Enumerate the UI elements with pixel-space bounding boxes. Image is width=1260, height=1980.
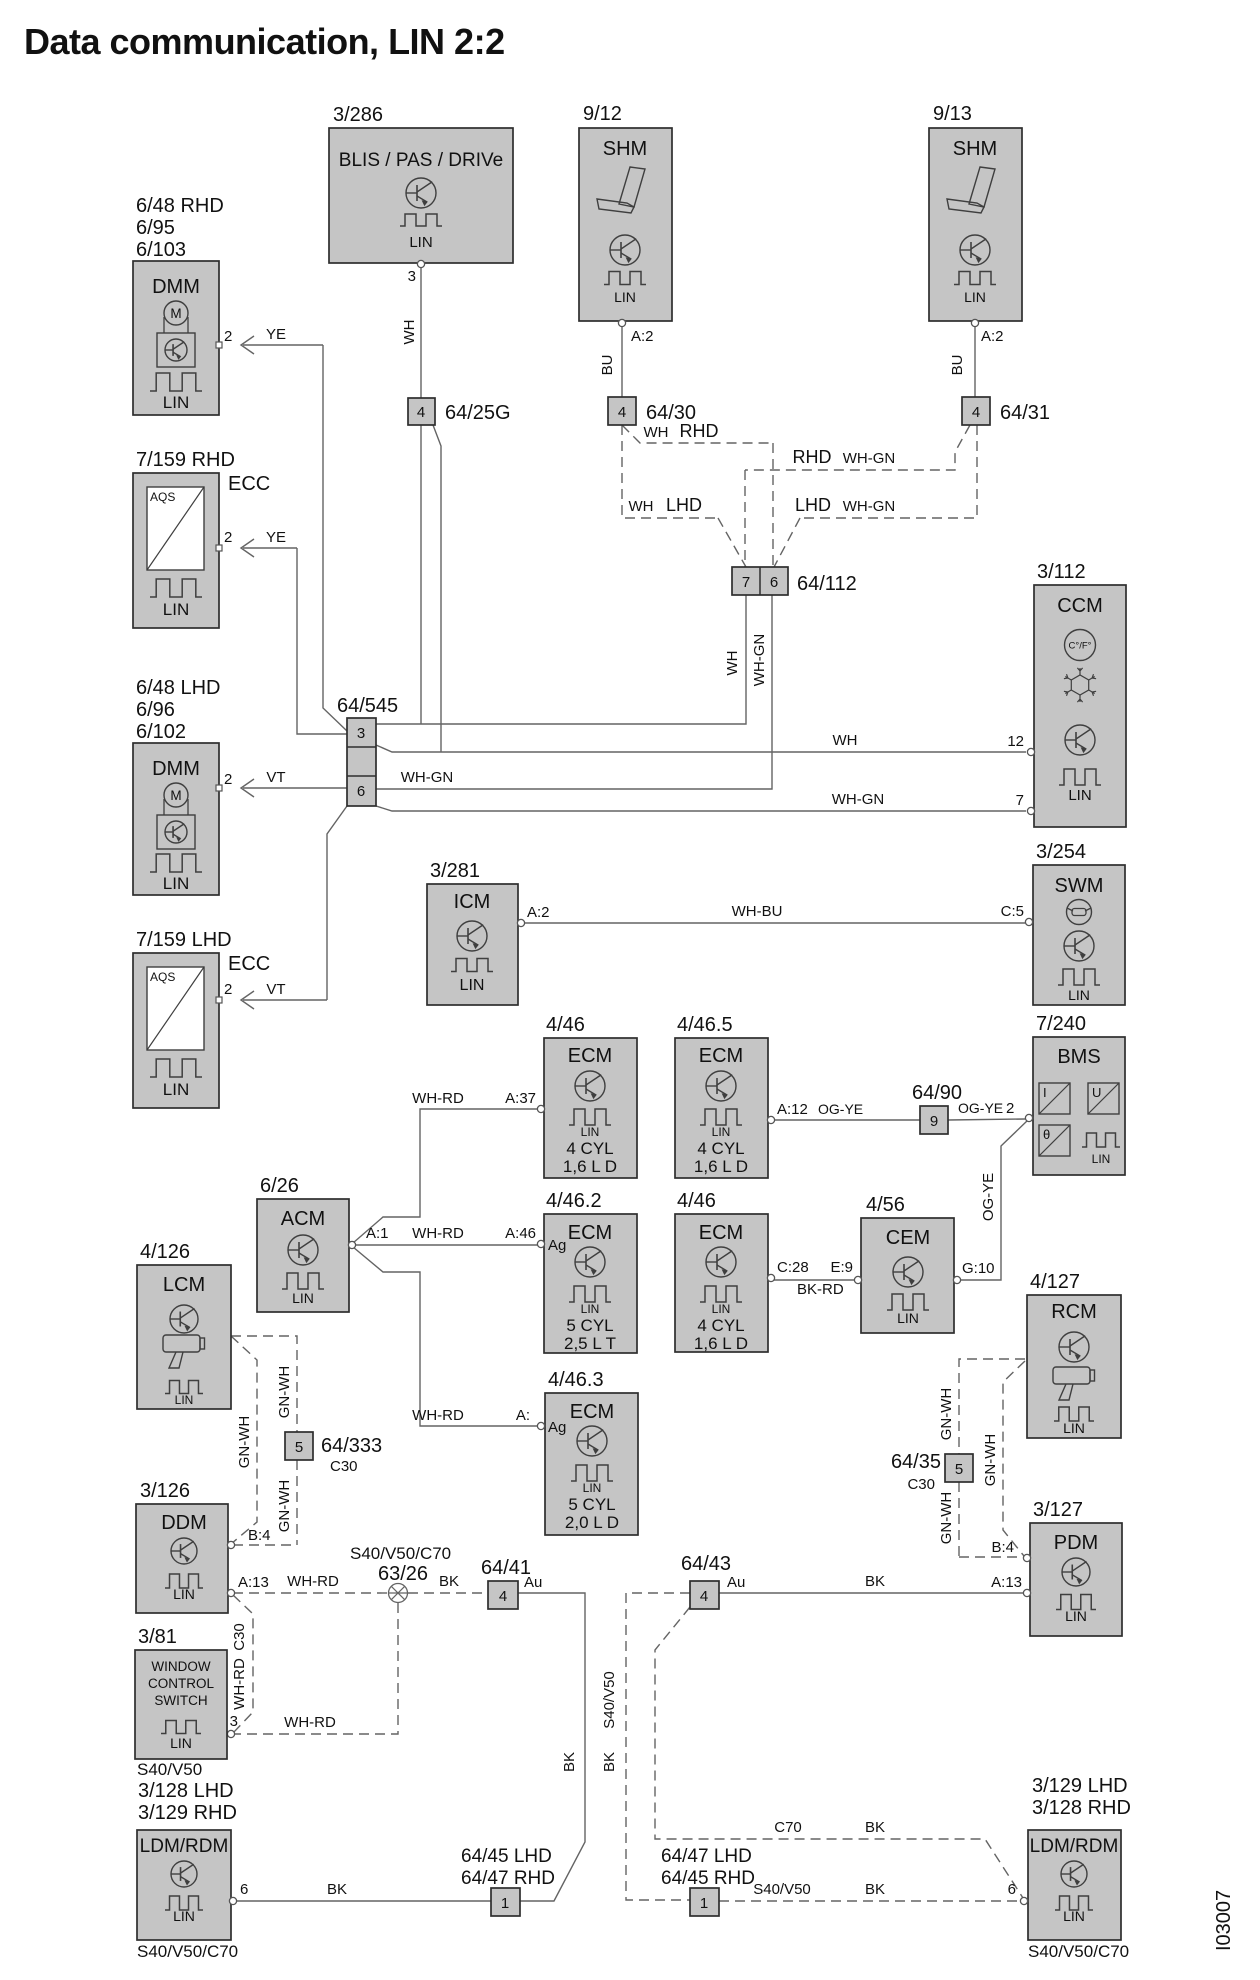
svg-text:LIN: LIN [712, 1302, 731, 1316]
svg-text:3/126: 3/126 [140, 1480, 190, 1502]
svg-text:9/13: 9/13 [933, 103, 972, 125]
svg-text:DMM: DMM [152, 758, 200, 780]
svg-text:BK: BK [561, 1752, 578, 1772]
svg-text:63/26: 63/26 [378, 1563, 428, 1585]
svg-text:7: 7 [1016, 792, 1024, 809]
svg-text:4: 4 [700, 1588, 708, 1605]
svg-text:4 CYL: 4 CYL [566, 1139, 613, 1158]
svg-text:3/129 LHD: 3/129 LHD [1032, 1775, 1128, 1797]
svg-text:LCM: LCM [163, 1274, 205, 1296]
svg-text:θ: θ [1043, 1127, 1050, 1142]
svg-text:LHD: LHD [795, 495, 831, 515]
svg-text:WINDOW: WINDOW [151, 1659, 210, 1674]
svg-text:BMS: BMS [1057, 1046, 1100, 1068]
svg-text:2,0 L D: 2,0 L D [565, 1513, 619, 1532]
svg-text:4: 4 [618, 404, 626, 421]
svg-text:A:13: A:13 [991, 1574, 1022, 1591]
svg-text:RHD: RHD [680, 421, 719, 441]
svg-text:6: 6 [770, 574, 778, 591]
svg-text:4 CYL: 4 CYL [697, 1139, 744, 1158]
svg-text:GN-WH: GN-WH [276, 1480, 293, 1533]
svg-text:7/240: 7/240 [1036, 1013, 1086, 1035]
svg-text:WH: WH [833, 732, 858, 749]
svg-text:64/31: 64/31 [1000, 402, 1050, 424]
svg-text:64/112: 64/112 [797, 573, 857, 595]
svg-text:LIN: LIN [163, 600, 189, 619]
svg-text:2: 2 [224, 981, 232, 998]
svg-text:ECM: ECM [699, 1045, 743, 1067]
svg-text:WH-GN: WH-GN [843, 450, 896, 467]
svg-text:WH-RD: WH-RD [412, 1407, 464, 1424]
svg-text:LIN: LIN [292, 1290, 314, 1306]
svg-text:5 CYL: 5 CYL [566, 1316, 613, 1335]
svg-text:6/48 LHD: 6/48 LHD [136, 677, 221, 699]
svg-text:5 CYL: 5 CYL [568, 1495, 615, 1514]
svg-text:OG-YE: OG-YE [818, 1101, 863, 1117]
svg-text:C30: C30 [231, 1623, 248, 1651]
svg-text:WH-GN: WH-GN [751, 634, 768, 687]
svg-text:5: 5 [955, 1461, 963, 1478]
svg-text:1: 1 [700, 1895, 708, 1912]
svg-text:LIN: LIN [1068, 987, 1090, 1003]
svg-text:64/43: 64/43 [681, 1553, 731, 1575]
svg-text:6: 6 [1008, 1881, 1016, 1898]
svg-text:4/46.5: 4/46.5 [677, 1014, 733, 1036]
svg-text:6/103: 6/103 [136, 239, 186, 261]
svg-text:6: 6 [240, 1881, 248, 1898]
svg-text:A:46: A:46 [505, 1225, 536, 1242]
svg-text:VT: VT [266, 981, 285, 998]
svg-text:I03007: I03007 [1213, 1890, 1235, 1951]
svg-text:6/95: 6/95 [136, 217, 175, 239]
svg-text:S40/V50/C70: S40/V50/C70 [137, 1942, 238, 1961]
svg-text:CEM: CEM [886, 1227, 930, 1249]
svg-text:4/46: 4/46 [546, 1014, 585, 1036]
svg-text:RCM: RCM [1051, 1301, 1097, 1323]
svg-text:4 CYL: 4 CYL [697, 1316, 744, 1335]
svg-text:VT: VT [266, 769, 285, 786]
svg-text:2: 2 [1006, 1100, 1014, 1117]
svg-text:2,5 L T: 2,5 L T [564, 1334, 616, 1353]
svg-text:3/127: 3/127 [1033, 1499, 1083, 1521]
svg-text:LHD: LHD [666, 495, 702, 515]
svg-text:64/90: 64/90 [912, 1082, 962, 1104]
svg-text:6/48 RHD: 6/48 RHD [136, 195, 224, 217]
svg-text:3/112: 3/112 [1037, 561, 1086, 583]
svg-text:BK: BK [865, 1881, 885, 1898]
svg-text:CCM: CCM [1057, 595, 1103, 617]
svg-text:S40/V50: S40/V50 [137, 1760, 202, 1779]
svg-text:A:37: A:37 [505, 1090, 536, 1107]
svg-text:BK: BK [601, 1752, 618, 1772]
svg-text:BU: BU [949, 355, 966, 376]
svg-text:1,6 L D: 1,6 L D [563, 1157, 617, 1176]
svg-text:6/26: 6/26 [260, 1175, 299, 1197]
svg-text:6/102: 6/102 [136, 721, 186, 743]
svg-text:3/254: 3/254 [1036, 841, 1086, 863]
svg-text:3: 3 [357, 725, 365, 742]
svg-text:SWM: SWM [1055, 875, 1104, 897]
svg-text:M: M [170, 788, 181, 803]
svg-text:64/35: 64/35 [891, 1451, 941, 1473]
svg-text:LDM/RDM: LDM/RDM [1030, 1836, 1119, 1857]
svg-text:LIN: LIN [170, 1735, 192, 1751]
svg-text:LIN: LIN [163, 393, 189, 412]
svg-text:WH: WH [644, 424, 669, 441]
svg-text:A:13: A:13 [238, 1574, 269, 1591]
svg-text:BK: BK [865, 1573, 885, 1590]
svg-text:4/127: 4/127 [1030, 1271, 1080, 1293]
svg-text:CONTROL: CONTROL [148, 1676, 214, 1691]
svg-text:WH: WH [724, 651, 741, 676]
svg-text:LIN: LIN [409, 234, 432, 251]
svg-text:7/159 LHD: 7/159 LHD [136, 929, 232, 951]
svg-text:B:4: B:4 [991, 1539, 1014, 1556]
svg-text:9/12: 9/12 [583, 103, 622, 125]
svg-text:OG-YE: OG-YE [958, 1100, 1003, 1116]
svg-text:GN-WH: GN-WH [938, 1492, 955, 1545]
svg-text:LIN: LIN [614, 289, 636, 305]
svg-text:S40/V50: S40/V50 [753, 1881, 811, 1898]
svg-text:6/96: 6/96 [136, 699, 175, 721]
svg-text:C70: C70 [774, 1819, 802, 1836]
svg-text:C30: C30 [330, 1458, 358, 1475]
svg-text:A:2: A:2 [527, 904, 550, 921]
svg-text:Data communication, LIN 2:2: Data communication, LIN 2:2 [24, 21, 505, 62]
svg-text:WH-GN: WH-GN [843, 498, 896, 515]
svg-text:6: 6 [357, 783, 365, 800]
svg-text:GN-WH: GN-WH [938, 1388, 955, 1441]
svg-text:ECM: ECM [699, 1222, 743, 1244]
svg-text:A:2: A:2 [631, 328, 654, 345]
svg-text:WH: WH [401, 320, 418, 345]
svg-text:2: 2 [224, 529, 232, 546]
svg-text:4: 4 [972, 404, 980, 421]
svg-text:BK: BK [327, 1881, 347, 1898]
svg-text:YE: YE [266, 326, 286, 343]
svg-text:ICM: ICM [454, 891, 491, 913]
svg-text:64/45 LHD: 64/45 LHD [461, 1846, 552, 1867]
svg-text:7: 7 [742, 574, 750, 591]
svg-text:GN-WH: GN-WH [982, 1434, 999, 1487]
svg-text:BK: BK [439, 1573, 459, 1590]
svg-text:Au: Au [727, 1574, 745, 1591]
svg-text:4/56: 4/56 [866, 1194, 905, 1216]
svg-text:ECM: ECM [568, 1222, 612, 1244]
svg-text:4/46.2: 4/46.2 [546, 1190, 602, 1212]
svg-text:LIN: LIN [897, 1310, 919, 1326]
svg-text:LIN: LIN [581, 1302, 600, 1316]
svg-text:Ag: Ag [548, 1237, 566, 1254]
svg-text:LDM/RDM: LDM/RDM [140, 1836, 229, 1857]
svg-text:1: 1 [501, 1895, 509, 1912]
svg-text:ECC: ECC [228, 473, 270, 495]
svg-text:3/128 RHD: 3/128 RHD [1032, 1797, 1131, 1819]
svg-text:WH-RD: WH-RD [287, 1573, 339, 1590]
svg-text:WH-RD: WH-RD [412, 1090, 464, 1107]
svg-text:S40/V50/C70: S40/V50/C70 [1028, 1942, 1129, 1961]
svg-text:LIN: LIN [964, 289, 986, 305]
svg-text:WH-RD: WH-RD [284, 1714, 336, 1731]
svg-text:C30: C30 [907, 1476, 935, 1493]
svg-text:Ag: Ag [548, 1419, 566, 1436]
svg-text:3/129 RHD: 3/129 RHD [138, 1802, 237, 1824]
svg-text:64/25G: 64/25G [445, 402, 511, 424]
svg-text:4/46: 4/46 [677, 1190, 716, 1212]
svg-text:S40/V50/C70: S40/V50/C70 [350, 1544, 451, 1563]
svg-text:3: 3 [230, 1713, 238, 1730]
svg-text:4/46.3: 4/46.3 [548, 1369, 604, 1391]
svg-text:64/333: 64/333 [321, 1435, 382, 1457]
svg-text:C:28: C:28 [777, 1259, 809, 1276]
svg-text:AQS: AQS [150, 490, 175, 504]
svg-text:ECM: ECM [568, 1045, 612, 1067]
svg-text:YE: YE [266, 529, 286, 546]
svg-text:SWITCH: SWITCH [154, 1693, 207, 1708]
svg-text:ACM: ACM [281, 1208, 325, 1230]
svg-text:9: 9 [930, 1113, 938, 1130]
svg-text:LIN: LIN [173, 1908, 195, 1924]
svg-text:SHM: SHM [953, 138, 997, 160]
svg-text:WH: WH [629, 498, 654, 515]
svg-text:RHD: RHD [793, 447, 832, 467]
svg-text:BLIS / PAS / DRIVe: BLIS / PAS / DRIVe [339, 150, 503, 171]
svg-text:WH-GN: WH-GN [401, 769, 454, 786]
svg-text:LIN: LIN [581, 1125, 600, 1139]
svg-text:C:5: C:5 [1001, 903, 1024, 920]
svg-text:LIN: LIN [1063, 1420, 1085, 1436]
svg-text:BK-RD: BK-RD [797, 1281, 844, 1298]
svg-text:12: 12 [1007, 733, 1024, 750]
svg-text:3/128 LHD: 3/128 LHD [138, 1780, 234, 1802]
svg-text:WH-GN: WH-GN [832, 791, 885, 808]
svg-text:LIN: LIN [163, 1080, 189, 1099]
svg-text:4: 4 [417, 404, 425, 421]
svg-text:ECC: ECC [228, 953, 270, 975]
svg-text:PDM: PDM [1054, 1532, 1098, 1554]
svg-text:WH-RD: WH-RD [231, 1658, 248, 1710]
svg-text:A:2: A:2 [981, 328, 1004, 345]
svg-text:GN-WH: GN-WH [276, 1366, 293, 1419]
svg-text:M: M [170, 306, 181, 321]
svg-text:1,6 L D: 1,6 L D [694, 1334, 748, 1353]
svg-text:LIN: LIN [173, 1586, 195, 1602]
svg-text:64/47 RHD: 64/47 RHD [461, 1868, 555, 1889]
svg-text:LIN: LIN [163, 874, 189, 893]
svg-text:OG-YE: OG-YE [980, 1173, 997, 1221]
svg-text:3/281: 3/281 [430, 860, 480, 882]
svg-text:E:9: E:9 [830, 1259, 853, 1276]
svg-text:7/159 RHD: 7/159 RHD [136, 449, 235, 471]
svg-text:3/286: 3/286 [333, 104, 383, 126]
svg-text:G:10: G:10 [962, 1260, 995, 1277]
svg-text:3: 3 [408, 268, 416, 285]
svg-text:64/47 LHD: 64/47 LHD [661, 1846, 752, 1867]
svg-text:Au: Au [524, 1574, 542, 1591]
svg-text:WH-RD: WH-RD [412, 1225, 464, 1242]
svg-text:ECM: ECM [570, 1401, 614, 1423]
svg-text:A:1: A:1 [366, 1225, 389, 1242]
svg-text:C°/F°: C°/F° [1069, 641, 1092, 652]
svg-text:AQS: AQS [150, 970, 175, 984]
svg-text:A:12: A:12 [777, 1101, 808, 1118]
svg-text:GN-WH: GN-WH [236, 1416, 253, 1469]
svg-text:LIN: LIN [460, 977, 485, 994]
svg-text:LIN: LIN [1063, 1908, 1085, 1924]
svg-text:2: 2 [224, 328, 232, 345]
svg-text:1,6 L D: 1,6 L D [694, 1157, 748, 1176]
svg-text:5: 5 [295, 1439, 303, 1456]
svg-text:LIN: LIN [1065, 1608, 1087, 1624]
svg-text:3/81: 3/81 [138, 1626, 177, 1648]
svg-text:DDM: DDM [161, 1512, 207, 1534]
svg-text:LIN: LIN [712, 1125, 731, 1139]
svg-text:WH-BU: WH-BU [732, 903, 783, 920]
svg-text:64/545: 64/545 [337, 695, 398, 717]
svg-text:DMM: DMM [152, 276, 200, 298]
svg-text:LIN: LIN [583, 1481, 602, 1495]
svg-text:A:: A: [516, 1407, 530, 1424]
svg-text:S40/V50: S40/V50 [601, 1671, 618, 1729]
svg-text:B:4: B:4 [248, 1527, 271, 1544]
svg-text:SHM: SHM [603, 138, 647, 160]
svg-text:U: U [1092, 1085, 1101, 1100]
svg-text:LIN: LIN [175, 1393, 194, 1407]
svg-text:I: I [1043, 1085, 1047, 1100]
svg-text:2: 2 [224, 771, 232, 788]
svg-text:LIN: LIN [1068, 787, 1091, 804]
svg-text:4/126: 4/126 [140, 1241, 190, 1263]
svg-text:LIN: LIN [1092, 1152, 1111, 1166]
svg-text:64/45 RHD: 64/45 RHD [661, 1868, 755, 1889]
svg-text:BK: BK [865, 1819, 885, 1836]
svg-text:4: 4 [499, 1588, 507, 1605]
svg-text:BU: BU [599, 355, 616, 376]
